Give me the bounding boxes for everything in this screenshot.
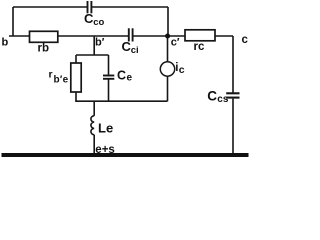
- svg-text:e+s: e+s: [95, 144, 115, 156]
- svg-text:b′e: b′e: [54, 75, 69, 86]
- svg-text:C: C: [117, 69, 126, 83]
- svg-text:Le: Le: [98, 121, 113, 136]
- svg-text:cs: cs: [217, 94, 229, 105]
- svg-text:ci: ci: [131, 45, 139, 56]
- svg-text:C: C: [207, 88, 217, 103]
- svg-text:co: co: [93, 17, 104, 28]
- svg-text:b: b: [2, 37, 9, 49]
- svg-text:rc: rc: [194, 41, 205, 53]
- svg-text:e: e: [127, 72, 133, 83]
- svg-text:r: r: [49, 69, 53, 81]
- svg-text:rb: rb: [38, 42, 50, 54]
- svg-text:c: c: [179, 64, 185, 76]
- svg-text:c′: c′: [171, 37, 180, 49]
- svg-text:b′: b′: [95, 37, 105, 49]
- svg-text:c: c: [242, 34, 249, 46]
